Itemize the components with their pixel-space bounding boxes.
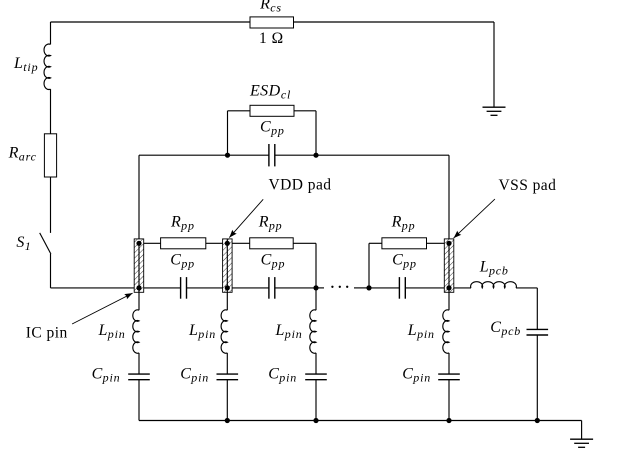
- wire L_pcb to C_pcb: [516, 288, 537, 330]
- wire Cpp1 right: [187, 287, 223, 289]
- wire Cpp3 left: [369, 287, 399, 289]
- label C_pin 3: [268, 365, 297, 384]
- label L_pcb: [479, 259, 509, 278]
- resistor R_arc: [44, 134, 56, 177]
- ellipsis dots: [331, 286, 348, 288]
- wire C_pin to rail 1: [138, 380, 140, 421]
- wire Cpp1 left: [144, 287, 181, 289]
- capacitor C_pcb: [527, 329, 549, 335]
- wire R_arc to switch: [50, 177, 52, 233]
- label VSS pad: [499, 177, 557, 194]
- label R_arc: [8, 144, 37, 163]
- node VSS bottom: [446, 285, 451, 290]
- wire L_pin to C_pin 1: [138, 353, 140, 374]
- node VDD bottom: [225, 285, 230, 290]
- wire ESD left drop: [138, 155, 140, 243]
- node IC pin top: [136, 241, 141, 246]
- label C_pin 4: [402, 365, 431, 384]
- ground bottom right: [570, 421, 593, 448]
- wire C_pin to rail 3: [315, 380, 317, 421]
- capacitor C_pin 4: [438, 374, 460, 380]
- inductor L_pin 2: [221, 310, 227, 353]
- label C_pp clamp: [260, 119, 285, 138]
- wire Rpp3 right: [427, 242, 445, 244]
- wire Cpp3 right: [405, 287, 444, 289]
- resistor R_pp 3: [382, 238, 427, 249]
- wire L_pin to C_pin 3: [315, 353, 317, 374]
- svg-text:VSS pad: VSS pad: [499, 177, 557, 194]
- capacitor C_pin 2: [217, 374, 239, 380]
- label L_pin 3: [275, 322, 303, 341]
- node ESD left: [225, 153, 230, 158]
- node rail col4: [446, 418, 451, 423]
- label R_pp 2: [258, 213, 283, 232]
- wire node4 up: [369, 243, 382, 288]
- node 4: [366, 285, 371, 290]
- wire Cpp2 left: [232, 287, 269, 289]
- wire ESD horizontal: [139, 154, 449, 156]
- node 3: [313, 285, 318, 290]
- wire L_pin to C_pin 4: [448, 353, 450, 374]
- resistor R_pp 1: [161, 238, 206, 249]
- wire from top to L_tip: [50, 22, 52, 44]
- wire through VDD bar: [226, 239, 228, 288]
- capacitor C_pp clamp: [269, 144, 275, 166]
- label L_pin 4: [407, 322, 435, 341]
- capacitor C_pin 1: [128, 374, 150, 380]
- IC pin pad bar 1: [134, 239, 144, 292]
- wire ESD bypass right: [294, 111, 316, 155]
- label C_pin 1: [92, 365, 121, 384]
- wire L_pin to C_pin 2: [226, 353, 228, 374]
- resistor R_cs: [250, 17, 294, 28]
- wire node4 stub: [354, 287, 369, 289]
- wire ESD bypass left: [228, 111, 251, 155]
- wire pad to L_pin 2: [226, 288, 228, 310]
- wire bottom rail: [139, 420, 582, 422]
- label C_pp 1: [170, 252, 195, 271]
- svg-text:VDD pad: VDD pad: [269, 177, 332, 194]
- label L_tip: [13, 55, 38, 74]
- wire C_pcb to rail: [536, 335, 538, 421]
- svg-text:Rcs: Rcs: [259, 0, 282, 15]
- wire switch to IC pin: [51, 254, 140, 288]
- node VSS top: [446, 241, 451, 246]
- wire C_pin to rail 4: [448, 380, 450, 421]
- node IC pin bottom: [136, 285, 141, 290]
- wire pad to L_pin 3: [315, 288, 317, 310]
- wire top rail: [51, 22, 495, 107]
- switch S1 blade: [40, 233, 51, 254]
- capacitor C_pp 2: [269, 277, 275, 299]
- VSS pad bar 3: [444, 239, 454, 292]
- wire through VSS bar: [448, 243, 450, 288]
- wire pad to L_pin 4: [448, 288, 450, 310]
- node rail col3: [313, 418, 318, 423]
- inductor L_pin 3: [310, 310, 316, 353]
- label C_pp 2: [261, 252, 286, 271]
- VDD pad bar 2: [223, 239, 233, 292]
- wire Rpp1 right: [206, 242, 223, 244]
- inductor L_pcb: [471, 282, 517, 288]
- label R_cs: [259, 0, 282, 15]
- label VDD pad: [269, 177, 332, 194]
- ground top right: [483, 107, 506, 115]
- capacitor C_pp 1: [181, 277, 187, 299]
- label IC pin: [26, 325, 68, 342]
- label R_pp 1: [170, 213, 195, 232]
- label L_pin 1: [98, 322, 126, 341]
- label L_pin 2: [188, 322, 216, 341]
- label S_1: [16, 234, 31, 253]
- node ESD right: [313, 153, 318, 158]
- label ESD_cl: [249, 82, 291, 101]
- wire through IC pin bar: [138, 243, 140, 288]
- arrow VDD pad: [229, 199, 263, 237]
- label C_pin 2: [180, 365, 209, 384]
- wire node3 stub: [316, 287, 324, 289]
- inductor L_pin 4: [443, 310, 449, 353]
- wire Rpp2 right: [293, 243, 316, 288]
- node rail pcb: [535, 418, 540, 423]
- inductor L_tip: [44, 44, 50, 89]
- resistor R_pp 2: [250, 238, 294, 249]
- arrow IC pin: [72, 293, 133, 324]
- value 1 Ohm: [259, 30, 284, 47]
- wire pad to L_pcb: [454, 287, 471, 289]
- wire pad to L_pin 1: [138, 288, 140, 310]
- wire Rpp2 left: [232, 242, 250, 244]
- label C_pp 3: [392, 252, 417, 271]
- label R_pp 3: [391, 213, 416, 232]
- wire L_tip to R_arc: [50, 89, 52, 134]
- node VDD top: [225, 241, 230, 246]
- wire ESD right drop: [448, 155, 450, 243]
- wire Rpp1 left: [144, 242, 161, 244]
- capacitor C_pin 3: [305, 374, 327, 380]
- arrow VSS pad: [454, 199, 495, 238]
- capacitor C_pp 3: [399, 277, 405, 299]
- svg-text:IC pin: IC pin: [26, 325, 68, 342]
- node rail col2: [225, 418, 230, 423]
- resistor ESD_cl: [250, 105, 294, 116]
- label C_pcb: [490, 319, 521, 338]
- wire Cpp2 right: [275, 287, 316, 289]
- wire C_pin to rail 2: [226, 380, 228, 421]
- svg-text:1 Ω: 1 Ω: [259, 30, 284, 47]
- inductor L_pin 1: [133, 310, 139, 353]
